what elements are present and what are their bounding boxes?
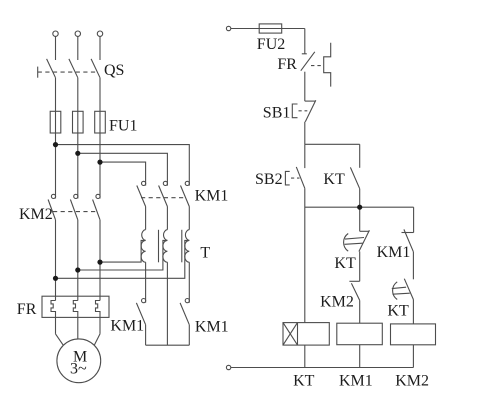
svg-text:KM2: KM2 bbox=[320, 293, 354, 310]
svg-text:QS: QS bbox=[104, 62, 124, 79]
svg-text:KM1: KM1 bbox=[339, 373, 373, 390]
svg-text:KM1: KM1 bbox=[195, 187, 229, 204]
svg-text:KT: KT bbox=[293, 373, 315, 390]
svg-text:KT: KT bbox=[323, 171, 345, 188]
svg-text:FU1: FU1 bbox=[109, 117, 137, 134]
svg-text:T: T bbox=[200, 245, 210, 262]
svg-text:FU2: FU2 bbox=[257, 36, 285, 53]
svg-text:FR: FR bbox=[17, 301, 37, 318]
svg-text:KM2: KM2 bbox=[19, 206, 53, 223]
svg-text:3~: 3~ bbox=[70, 360, 87, 377]
svg-text:KM2: KM2 bbox=[395, 373, 429, 390]
svg-text:FR: FR bbox=[277, 56, 297, 73]
svg-text:KM1: KM1 bbox=[195, 318, 229, 335]
svg-text:KT: KT bbox=[387, 302, 409, 319]
svg-text:SB2: SB2 bbox=[255, 171, 283, 188]
svg-text:KT: KT bbox=[334, 255, 356, 272]
svg-text:SB1: SB1 bbox=[263, 104, 291, 121]
svg-text:KM1: KM1 bbox=[377, 244, 411, 261]
svg-text:KM1: KM1 bbox=[110, 318, 144, 335]
